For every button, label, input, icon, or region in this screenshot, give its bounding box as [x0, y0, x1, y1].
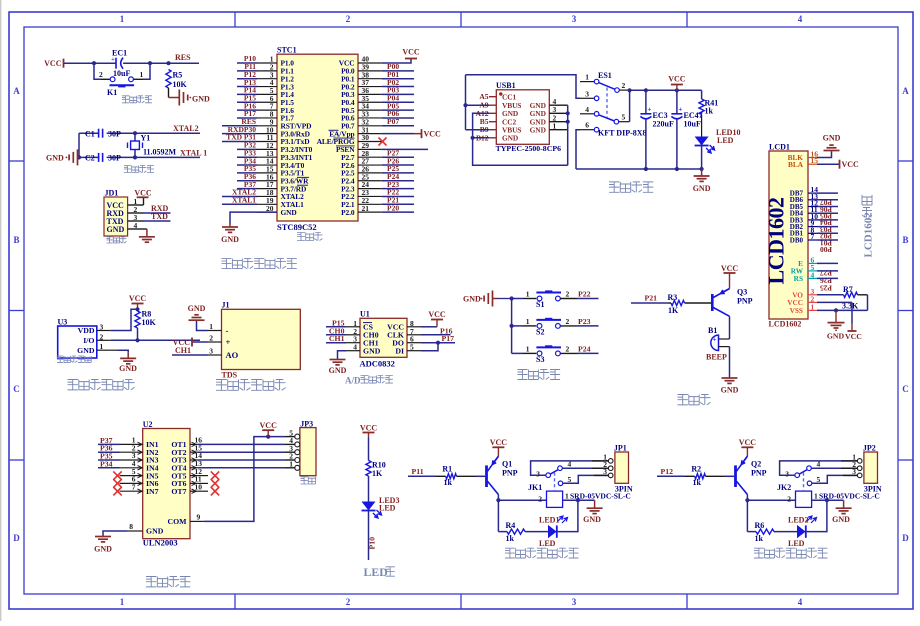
- ground (stepper): [102, 536, 104, 537]
- svg-text:P2.0: P2.0: [341, 208, 355, 217]
- svg-text:VCC: VCC: [129, 294, 147, 303]
- svg-text:2: 2: [346, 597, 351, 607]
- wire R10 to LED3: [368, 476, 370, 502]
- mcu right pins: [358, 62, 382, 64]
- svg-text:+: +: [713, 336, 717, 344]
- svg-text:3: 3: [100, 323, 104, 332]
- svg-text:11.0592M: 11.0592M: [143, 148, 177, 157]
- power port VCC (U3): [137, 304, 139, 310]
- svg-text:Y1: Y1: [141, 134, 151, 143]
- svg-text:30P: 30P: [108, 129, 121, 138]
- wire U3 io: [111, 339, 200, 341]
- svg-text:JD1: JD1: [105, 188, 119, 197]
- power port VCC (lcd): [851, 324, 853, 332]
- node reset junctions: [92, 61, 96, 65]
- svg-text:VCC: VCC: [721, 264, 739, 273]
- driver U2 body: [143, 429, 190, 539]
- svg-text:P17: P17: [442, 334, 455, 343]
- resistor R4: [507, 529, 525, 534]
- svg-text:3: 3: [852, 467, 856, 476]
- svg-text:7: 7: [811, 232, 815, 241]
- svg-text:ES1: ES1: [598, 71, 612, 80]
- svg-text:GND: GND: [583, 515, 601, 524]
- svg-text:ADC0832: ADC0832: [360, 359, 395, 369]
- svg-text:KFT DIP-8X8: KFT DIP-8X8: [598, 129, 647, 138]
- svg-text:1: 1: [100, 342, 104, 351]
- svg-text:VCC: VCC: [490, 438, 508, 447]
- svg-text:VCC: VCC: [360, 424, 378, 433]
- svg-text:1: 1: [553, 121, 557, 130]
- svg-text:EC1: EC1: [112, 49, 127, 58]
- wire vcc to R10: [368, 438, 370, 461]
- mcu pin20 ground: [230, 212, 277, 224]
- svg-text:2: 2: [566, 317, 570, 326]
- usb right pins: [549, 104, 567, 106]
- wire reset main: [64, 62, 94, 64]
- svg-text:Q3: Q3: [737, 288, 747, 297]
- svg-text:2: 2: [99, 70, 103, 79]
- svg-text:LCD1602: LCD1602: [764, 197, 789, 284]
- connector JP1: [615, 452, 629, 483]
- wire J1 pin3 CH1: [172, 354, 208, 356]
- svg-text:LED1: LED1: [539, 516, 559, 525]
- svg-text:+: +: [226, 337, 231, 347]
- caption an jian fu wei: [122, 96, 129, 103]
- svg-text:2: 2: [209, 334, 213, 343]
- wire JK1 NC to JP1 pin3: [563, 475, 610, 483]
- svg-text:P07: P07: [387, 117, 399, 126]
- svg-text:BLA: BLA: [788, 160, 804, 169]
- lcd pin16 BLK: [808, 157, 817, 159]
- connector JD1: [104, 197, 128, 236]
- ground (J1): [196, 319, 198, 322]
- svg-text:VDD: VDD: [78, 326, 95, 335]
- wire vcc rail: [630, 89, 702, 91]
- svg-text:R4: R4: [506, 521, 516, 530]
- svg-text:P20: P20: [387, 203, 399, 212]
- svg-text:+: +: [678, 106, 682, 114]
- wire P21: [631, 302, 668, 304]
- svg-text:GND: GND: [107, 225, 125, 234]
- svg-text:2: 2: [100, 332, 104, 341]
- svg-text:S2: S2: [536, 328, 544, 337]
- svg-text:PNP: PNP: [737, 297, 753, 306]
- driver GND pin8: [127, 530, 143, 532]
- svg-text:1k: 1k: [705, 107, 714, 116]
- driver right pins: [190, 443, 198, 445]
- svg-text:XTAL1: XTAL1: [232, 196, 256, 205]
- relay switch JK1: [546, 473, 551, 478]
- svg-text:P12: P12: [661, 467, 674, 476]
- svg-text:VCC: VCC: [424, 130, 442, 139]
- svg-text:1: 1: [140, 70, 144, 79]
- wire LED3 down / net P10: [368, 511, 370, 561]
- led LED10: [695, 137, 709, 146]
- svg-text:GND: GND: [188, 304, 206, 313]
- wire JK1 right to gnd: [563, 499, 595, 501]
- wire adc CH0: [326, 334, 346, 336]
- svg-text:GND: GND: [823, 134, 841, 143]
- resistor R7: [817, 294, 844, 296]
- caption xia zai kou: [107, 237, 113, 243]
- caption shui zhi jian ce mo kuai: [216, 380, 227, 391]
- wire U3 gnd: [111, 349, 118, 351]
- net label TXD wire: [144, 220, 171, 222]
- ground (lcd): [835, 310, 837, 322]
- svg-text:RES: RES: [175, 53, 191, 62]
- svg-text:S1: S1: [536, 300, 544, 309]
- svg-text:1K: 1K: [372, 469, 383, 478]
- relay coil JK1: [547, 491, 563, 507]
- wire adc P16: [421, 334, 451, 336]
- svg-text:1k: 1k: [506, 534, 515, 543]
- mcu U1 STC1 body: [277, 54, 358, 221]
- transistor Q3 PNP: [711, 294, 714, 311]
- svg-text:VCC: VCC: [44, 59, 62, 68]
- capacitor EC47: [676, 90, 678, 114]
- capacitor C2: [98, 153, 100, 162]
- wire key S1 left: [512, 298, 523, 300]
- svg-text:B1: B1: [708, 326, 717, 335]
- resistor R2: [695, 474, 706, 479]
- svg-text:6: 6: [585, 121, 589, 130]
- wire node to R4: [498, 531, 507, 533]
- wire lcd vss: [817, 309, 868, 311]
- svg-text:GND: GND: [832, 515, 850, 524]
- svg-text:1: 1: [289, 460, 293, 469]
- svg-text:3: 3: [785, 470, 789, 479]
- svg-text:Q1: Q1: [502, 460, 512, 469]
- svg-text:P24: P24: [578, 344, 591, 353]
- svg-text:3: 3: [572, 14, 577, 24]
- svg-text:LCD1602: LCD1602: [863, 212, 875, 258]
- svg-text:VCC: VCC: [739, 438, 757, 447]
- svg-text:4: 4: [353, 343, 357, 352]
- caption ji dian qi kong zhi dian lu: [505, 548, 515, 558]
- svg-text:S3: S3: [536, 355, 544, 364]
- svg-text:10K: 10K: [142, 318, 157, 327]
- frame column ticks: [234, 12, 236, 27]
- power port VCC (adc): [421, 326, 437, 328]
- resistor R6: [756, 529, 774, 534]
- button S1: [536, 292, 561, 294]
- wire JK2 NC to JP2 pin3: [812, 475, 859, 483]
- svg-text:1: 1: [526, 344, 530, 353]
- svg-text:R2: R2: [691, 464, 701, 473]
- driver input wires P37-P34: [98, 443, 120, 445]
- svg-text:4: 4: [585, 105, 589, 114]
- svg-text:TDS: TDS: [222, 371, 238, 380]
- button S2: [536, 319, 561, 321]
- connector JP3: [300, 428, 316, 476]
- wire U3 vdd to vcc: [111, 309, 138, 330]
- wire R5 to gnd: [168, 88, 170, 98]
- svg-text:7: 7: [132, 482, 136, 491]
- driver left pins: [120, 443, 143, 445]
- resistor R10: [366, 461, 371, 477]
- wire Q3 collector: [729, 316, 731, 339]
- connector JP2: [864, 452, 878, 483]
- capacitor EC1: [115, 58, 117, 69]
- svg-text:DI: DI: [395, 346, 404, 355]
- power port VCC (buzzer): [729, 273, 731, 289]
- resistor R1: [446, 474, 457, 479]
- svg-text:PNP: PNP: [751, 469, 767, 478]
- wire R6 to LED2: [774, 531, 797, 533]
- svg-text:GND: GND: [221, 235, 239, 244]
- svg-text:GND: GND: [530, 126, 546, 135]
- wire P12: [657, 475, 685, 477]
- caption feng ming qi: [678, 395, 688, 405]
- wire lcd vcc: [817, 301, 852, 303]
- svg-text:SRD-05VDC-SL-C: SRD-05VDC-SL-C: [819, 492, 880, 501]
- svg-text:P11: P11: [412, 467, 424, 476]
- svg-text:1: 1: [814, 492, 818, 501]
- wire JK1 NO to JP1 pin2: [562, 467, 610, 469]
- led LED1: [548, 525, 557, 538]
- svg-text:4: 4: [798, 14, 803, 24]
- svg-text:GND: GND: [94, 545, 112, 554]
- wire node to R6: [747, 531, 756, 533]
- transistor Q1 PNP: [485, 465, 488, 487]
- wire adc CH1: [326, 342, 346, 344]
- svg-text:10uF: 10uF: [113, 69, 130, 78]
- wire key S1 right / net P22: [560, 298, 577, 300]
- wire black stubs into JP1: [592, 460, 608, 462]
- driver COM pin9: [190, 520, 204, 522]
- caption dian yuan dian lu: [609, 182, 619, 192]
- svg-text:VCC: VCC: [842, 160, 860, 169]
- wire adc gnd: [338, 351, 347, 359]
- no-connect X IN5-IN7: [113, 471, 121, 479]
- svg-text:VCC: VCC: [134, 188, 152, 197]
- svg-text:PNP: PNP: [502, 469, 518, 478]
- wire usb right gnd bus: [567, 105, 569, 165]
- wire JK2 common to JP2 pin1: [780, 461, 859, 475]
- svg-text:2: 2: [346, 14, 351, 24]
- svg-text:A/D: A/D: [345, 376, 361, 386]
- svg-text:1k: 1k: [755, 534, 764, 543]
- relay coil JK2: [796, 491, 812, 507]
- svg-text:R7: R7: [843, 285, 853, 294]
- svg-text:GND: GND: [693, 184, 711, 193]
- svg-text:GND: GND: [192, 94, 210, 103]
- svg-text:R1: R1: [442, 464, 452, 473]
- svg-text:VCC: VCC: [428, 310, 446, 319]
- svg-text:1: 1: [120, 14, 125, 24]
- wire gnd rail: [576, 168, 702, 170]
- wire key S2 right / net P23: [560, 325, 577, 327]
- module J1 body: [222, 309, 301, 369]
- adc right pins: [407, 326, 421, 328]
- caption du li an jian: [518, 370, 528, 380]
- power port VCC (stepper): [266, 435, 270, 439]
- caption dian ji: [301, 477, 308, 484]
- svg-text:LED: LED: [364, 565, 388, 579]
- svg-text:30P: 30P: [108, 154, 121, 163]
- svg-text:GND: GND: [281, 208, 297, 217]
- transistor Q2 PNP: [734, 465, 737, 487]
- wire LED10 to rail: [701, 146, 703, 170]
- svg-text:SRD-05VDC-SL-C: SRD-05VDC-SL-C: [570, 492, 631, 501]
- ground (buzzer): [729, 377, 731, 378]
- wire adc DI to DO: [421, 343, 438, 351]
- adc left pins: [346, 326, 360, 328]
- svg-text:AO: AO: [226, 350, 239, 360]
- driver output wires to JP3: [198, 443, 285, 445]
- svg-text:A: A: [13, 86, 20, 96]
- svg-text:VCC: VCC: [845, 332, 862, 341]
- svg-text:1: 1: [811, 302, 815, 311]
- svg-text:GND: GND: [363, 346, 381, 355]
- svg-text:U1: U1: [360, 310, 370, 319]
- svg-text:JP3: JP3: [300, 420, 313, 429]
- svg-text:2: 2: [538, 495, 542, 504]
- ground (power): [701, 169, 703, 176]
- svg-text:STC89C52: STC89C52: [277, 222, 317, 232]
- svg-text:LED: LED: [379, 504, 396, 513]
- resistor R3: [668, 302, 671, 304]
- power port VCC (reset): [63, 59, 65, 68]
- node crystal junctions: [77, 155, 81, 159]
- resistor R41: [701, 90, 703, 99]
- power port VCC (JD1): [143, 198, 145, 205]
- led LED3: [362, 502, 376, 511]
- svg-text:U3: U3: [58, 318, 68, 327]
- svg-text:8: 8: [129, 522, 133, 531]
- svg-text:R5: R5: [173, 71, 183, 80]
- power port VCC (rail): [676, 85, 678, 91]
- caption wen du chuan gan qi: [57, 356, 63, 362]
- svg-text:1: 1: [585, 73, 589, 82]
- wire J1 pin1 to gnd: [197, 321, 208, 331]
- wire usb gnd loop: [473, 113, 568, 165]
- wire JK2 NO to JP2 pin2: [811, 467, 859, 469]
- lcd data pins DB7-DB0: [808, 192, 817, 194]
- ground (lcd backlight): [831, 151, 833, 153]
- power port VCC (Q2): [746, 447, 748, 456]
- svg-text:GND: GND: [119, 364, 137, 373]
- svg-text:OT7: OT7: [171, 487, 186, 496]
- svg-text:JP2: JP2: [863, 444, 876, 453]
- wire Q2 collector node: [746, 495, 748, 532]
- svg-text:5: 5: [410, 343, 414, 352]
- svg-text:A: A: [902, 86, 909, 96]
- svg-text:2: 2: [566, 344, 570, 353]
- svg-text:4: 4: [134, 221, 138, 230]
- svg-text:9: 9: [197, 513, 201, 522]
- svg-text:P23: P23: [578, 317, 591, 326]
- svg-text:GND: GND: [146, 527, 164, 536]
- wire keys bus: [511, 299, 513, 354]
- svg-text:5: 5: [622, 113, 626, 122]
- caption wen du cai ji mo kuai: [68, 380, 78, 390]
- svg-text:1K: 1K: [668, 306, 679, 315]
- wire switch pin6 to gnd rail: [576, 130, 580, 169]
- wire P11: [408, 475, 436, 477]
- power port VCC (mcu pin40): [382, 59, 411, 64]
- mcu pin29 wire: [382, 148, 428, 150]
- wire LED1 to node: [557, 500, 578, 531]
- svg-text:2: 2: [622, 81, 626, 90]
- svg-text:D: D: [13, 533, 20, 543]
- wire key S3 right / net P24: [560, 352, 577, 354]
- no-connect X OT5-OT7: [198, 475, 208, 477]
- usb connector USB1 body: [496, 90, 549, 145]
- svg-text:XTAL 1: XTAL 1: [180, 149, 207, 158]
- sensor U3 body: [58, 326, 97, 358]
- svg-text:P00: P00: [820, 245, 832, 254]
- svg-text:3: 3: [209, 347, 213, 356]
- svg-text:CH1: CH1: [175, 346, 191, 355]
- svg-text:ULN2003: ULN2003: [143, 538, 178, 548]
- adc U1 body: [360, 318, 407, 357]
- svg-text:21: 21: [362, 204, 370, 213]
- svg-text:P21: P21: [645, 294, 658, 303]
- wire usb vbus loop: [466, 75, 490, 106]
- relay switch JK2: [795, 473, 800, 478]
- wire Q1 collector node: [497, 495, 499, 532]
- ground (JK2): [843, 500, 845, 508]
- ground (reset): [169, 97, 180, 99]
- svg-text:XTAL2: XTAL2: [173, 124, 199, 133]
- svg-text:R6: R6: [755, 521, 765, 530]
- svg-text:B: B: [902, 235, 908, 245]
- svg-text:B: B: [13, 235, 19, 245]
- ground (JD1): [144, 228, 147, 230]
- caption dan pian ji zui xiao xi tong: [222, 259, 232, 269]
- svg-text:3: 3: [572, 597, 577, 607]
- wire R4 to LED1: [525, 531, 548, 533]
- svg-text:3: 3: [585, 89, 589, 98]
- svg-text:LED: LED: [788, 539, 805, 548]
- mcu right wires and net labels: [382, 70, 414, 72]
- svg-text:1: 1: [526, 317, 530, 326]
- caption dan pian ji: [297, 233, 305, 241]
- svg-text:C2: C2: [85, 154, 95, 163]
- svg-text:JK2: JK2: [777, 483, 791, 492]
- svg-text:DB0: DB0: [790, 236, 804, 244]
- svg-text:C: C: [13, 384, 20, 394]
- svg-text:-: -: [226, 325, 229, 335]
- svg-text:J1: J1: [222, 301, 230, 310]
- wire xtal2 row: [79, 132, 99, 134]
- crystal Y1: [134, 133, 136, 141]
- svg-text:LED2: LED2: [788, 516, 808, 525]
- no-connect X (mcu pin30): [379, 138, 387, 146]
- svg-text:CH1: CH1: [329, 334, 345, 343]
- svg-text:GND: GND: [502, 134, 518, 143]
- wire JK2 right to gnd: [812, 499, 844, 501]
- svg-text:C: C: [902, 384, 909, 394]
- svg-text:GND: GND: [463, 295, 481, 304]
- caption ji dian qi kong zhi dian lu: [754, 548, 764, 558]
- ground (U3): [127, 353, 129, 359]
- svg-text:GND: GND: [721, 386, 739, 395]
- svg-text:3: 3: [536, 470, 540, 479]
- wire key S3 left: [512, 352, 523, 354]
- svg-text:1k: 1k: [693, 478, 702, 487]
- svg-text:GND: GND: [77, 346, 95, 355]
- svg-text:IN7: IN7: [146, 487, 159, 496]
- wire key S2 left: [512, 325, 523, 327]
- frame row ticks: [9, 160, 24, 162]
- svg-text:1: 1: [120, 597, 125, 607]
- svg-text:2: 2: [566, 289, 570, 298]
- svg-text:LCD1: LCD1: [769, 143, 790, 152]
- wire J1 pin2 to vcc: [193, 341, 208, 343]
- wire black stubs into JP2: [841, 460, 857, 462]
